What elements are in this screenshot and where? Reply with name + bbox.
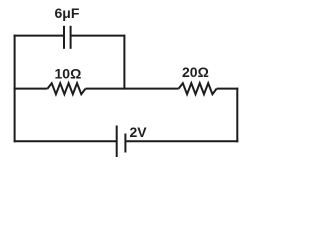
svg-text:6μF: 6μF: [55, 5, 80, 21]
capacitor C1 6uF left plate: [63, 26, 65, 49]
wire: middle left segment: [14, 88, 48, 90]
wire: top side, right segment from capacitor: [71, 35, 125, 37]
svg-text:10Ω: 10Ω: [55, 65, 82, 81]
battery V1 2V short plate: [124, 134, 126, 153]
wire: right vertical: [236, 88, 238, 143]
wire: left vertical (top loop + bottom loop shared): [14, 35, 16, 143]
wire: middle right segment to right vertical: [217, 88, 239, 90]
wire: bottom right segment from battery: [125, 140, 238, 142]
wire: capacitor loop right vertical: [123, 35, 125, 90]
svg-text:20Ω: 20Ω: [182, 64, 209, 80]
capacitor C1 6uF right plate: [70, 26, 72, 49]
svg-text:2V: 2V: [130, 124, 148, 140]
resistor R2 20 ohm zigzag: [179, 83, 217, 94]
wire: middle segment between resistors: [86, 88, 179, 90]
resistor R1 10 ohm zigzag: [48, 83, 86, 94]
battery V1 2V long plate: [116, 126, 118, 158]
wire: bottom left segment to battery: [14, 140, 117, 142]
wire: top side, left segment to capacitor: [14, 35, 64, 37]
